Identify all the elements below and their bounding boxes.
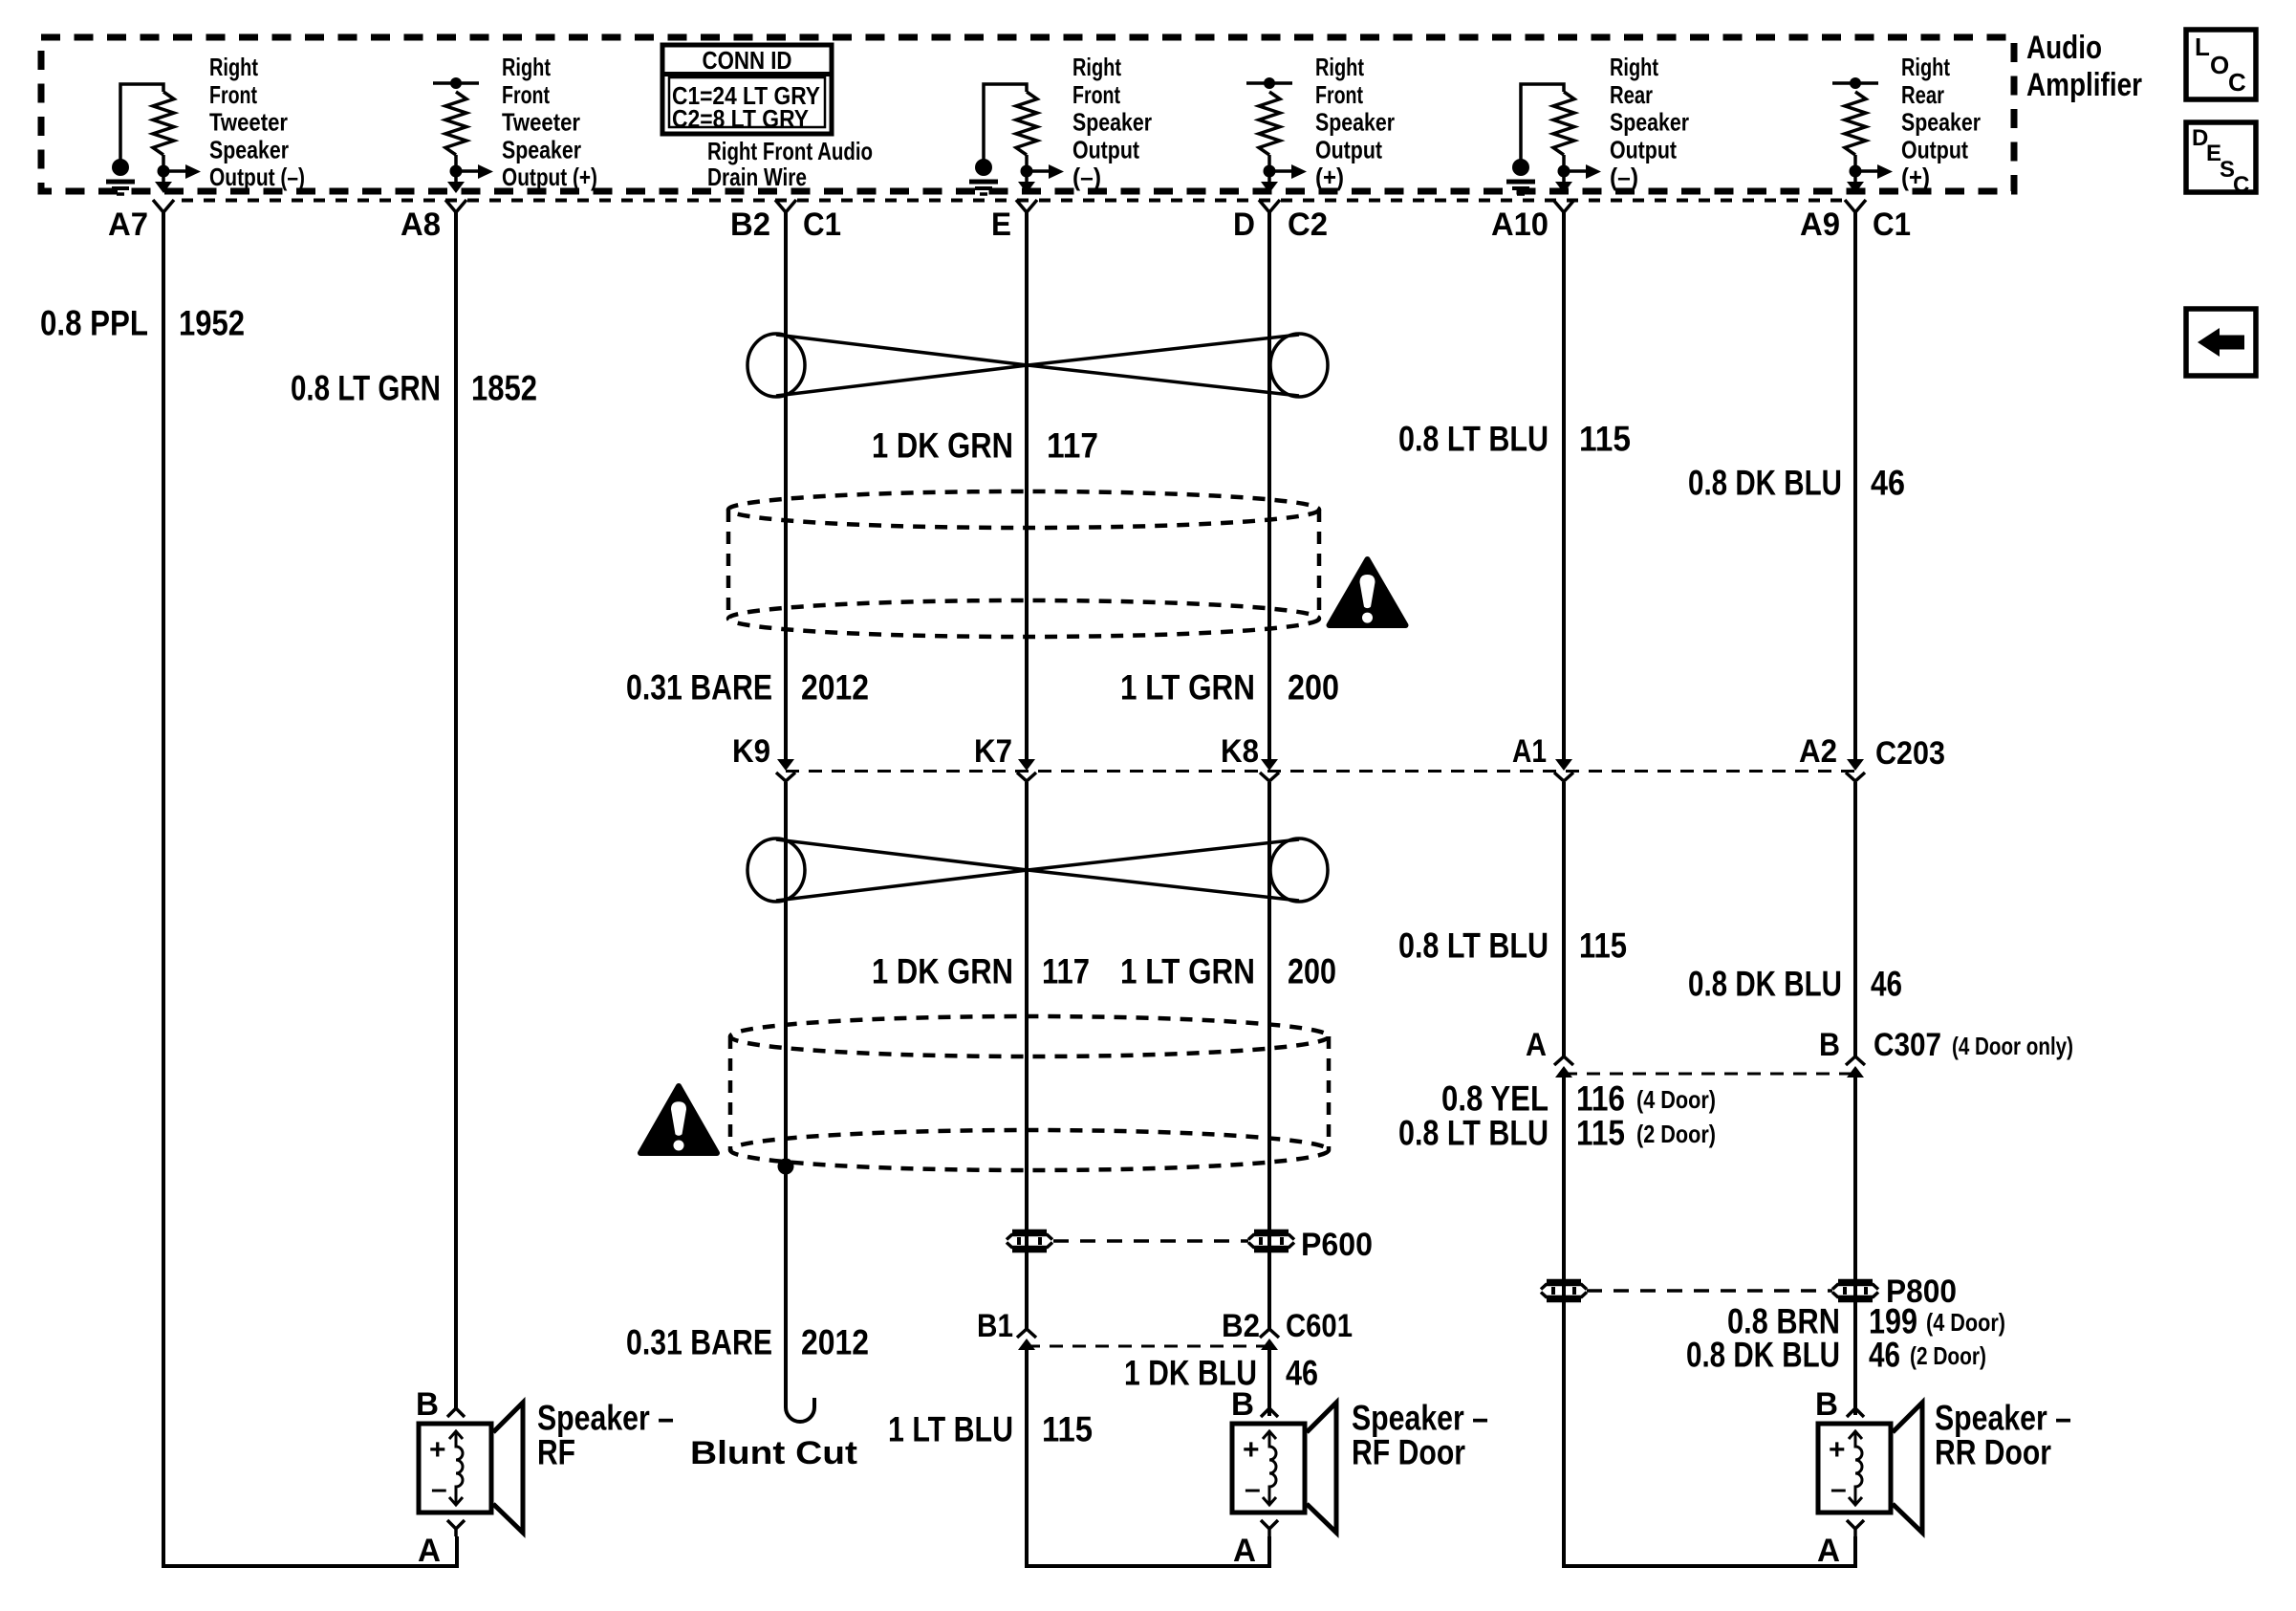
svg-text:2012: 2012: [801, 1323, 869, 1362]
grommet P600 on wire 200: [1254, 1230, 1289, 1234]
svg-text:2012: 2012: [801, 668, 869, 708]
svg-text:0.8 LT GRN: 0.8 LT GRN: [291, 369, 441, 408]
svg-text:200: 200: [1288, 952, 1336, 991]
svg-text:0.8 DK BLU: 0.8 DK BLU: [1688, 965, 1842, 1004]
svg-text:A10: A10: [1491, 207, 1549, 243]
P800 dashed link: [1587, 1289, 1832, 1293]
inline connector C203 dashed line: [786, 770, 1855, 773]
grommet P800 on wire 115: [1547, 1279, 1581, 1284]
svg-text:Output: Output: [1072, 135, 1139, 163]
svg-text:0.8 PPL: 0.8 PPL: [40, 304, 148, 343]
svg-text:C: C: [2233, 172, 2249, 198]
svg-text:A: A: [1526, 1027, 1547, 1063]
svg-text:46: 46: [1871, 464, 1905, 503]
svg-text:1 LT BLU: 1 LT BLU: [888, 1410, 1013, 1449]
svg-text:Speaker: Speaker: [1315, 108, 1395, 137]
bottom wire RF Door speaker return: [1025, 1536, 1269, 1566]
svg-text:46: 46: [1286, 1354, 1318, 1393]
wire A8: 0.8 LT GRN 1852: [454, 212, 458, 1410]
connector C203 pin A2: [1847, 759, 1864, 771]
wire A7: 0.8 PPL 1952: [162, 212, 165, 1564]
bottom wire RF speaker return: [162, 1536, 457, 1566]
svg-text:0.8 LT BLU: 0.8 LT BLU: [1398, 420, 1549, 459]
svg-text:116: 116: [1576, 1079, 1625, 1119]
svg-text:Front: Front: [502, 80, 550, 109]
shield symbol (upper, dashed cylinder): [728, 491, 1319, 528]
svg-text:Blunt Cut: Blunt Cut: [690, 1435, 857, 1471]
connector C203 pin A1: [1555, 759, 1572, 771]
connector C203 pin K8: [1261, 759, 1278, 771]
P600 dashed link: [1053, 1239, 1248, 1243]
svg-text:Speaker: Speaker: [1610, 108, 1689, 137]
svg-text:Speaker –: Speaker –: [537, 1399, 674, 1438]
svg-text:Speaker –: Speaker –: [1352, 1399, 1488, 1438]
svg-text:C203: C203: [1875, 735, 1945, 772]
svg-text:–: –: [431, 1473, 447, 1505]
svg-text:Front: Front: [209, 80, 257, 109]
connector Y at pin B2: [775, 200, 796, 212]
svg-text:RF: RF: [537, 1433, 575, 1472]
svg-text:Speaker: Speaker: [1072, 108, 1152, 137]
wire A9: 0.8 DK BLU 46: [1853, 212, 1857, 759]
shield symbol (lower, dashed cylinder): [730, 1016, 1329, 1056]
svg-text:C2=8 LT GRY: C2=8 LT GRY: [672, 104, 809, 133]
speaker RF: [419, 1424, 491, 1513]
svg-text:Front: Front: [1072, 80, 1120, 109]
svg-text:(+): (+): [1315, 163, 1344, 191]
connector C601 pin B2: [1260, 1329, 1279, 1338]
svg-text:Speaker: Speaker: [209, 135, 289, 163]
svg-text:B2: B2: [1222, 1308, 1260, 1344]
svg-text:Right: Right: [1901, 53, 1950, 81]
svg-text:1852: 1852: [471, 369, 537, 408]
svg-text:115: 115: [1579, 420, 1631, 459]
svg-text:0.31 BARE: 0.31 BARE: [626, 1323, 772, 1362]
svg-text:0.8 DK BLU: 0.8 DK BLU: [1686, 1336, 1840, 1375]
connector Y at pin A9: [1845, 200, 1866, 212]
back-arrow box: [2186, 309, 2256, 376]
connector C203 pin K9: [777, 759, 794, 771]
svg-text:A1: A1: [1512, 733, 1547, 770]
DESC box: [2186, 122, 2256, 192]
svg-text:Front: Front: [1315, 80, 1363, 109]
svg-text:(4 Door): (4 Door): [1926, 1308, 2005, 1337]
wire B2/C1 drain wire 0.31 BARE 2012: [784, 212, 788, 759]
svg-text:Speaker –: Speaker –: [1935, 1399, 2071, 1438]
svg-text:O: O: [2210, 51, 2229, 79]
warning triangle (lower): [640, 1086, 717, 1153]
amp coil: Right Rear Speaker Output (-) at A10: [1553, 92, 1574, 155]
svg-text:0.31 BARE: 0.31 BARE: [626, 668, 772, 708]
wire D: LT GRN 200 / DK BLU 46: [1267, 212, 1271, 759]
svg-text:+: +: [429, 1434, 446, 1466]
connector Y at pin D: [1259, 200, 1280, 212]
svg-text:C307: C307: [1874, 1027, 1941, 1063]
inline connector C601 dashed line: [1027, 1345, 1269, 1348]
svg-text:+: +: [1829, 1434, 1846, 1466]
svg-text:RF Door: RF Door: [1352, 1433, 1465, 1472]
svg-text:(4 Door): (4 Door): [1636, 1085, 1716, 1114]
svg-text:Rear: Rear: [1901, 80, 1944, 109]
svg-text:B: B: [1231, 1386, 1254, 1423]
svg-text:K8: K8: [1221, 733, 1259, 770]
svg-text:115: 115: [1579, 926, 1627, 966]
svg-text:1 LT GRN: 1 LT GRN: [1120, 952, 1255, 991]
svg-text:C: C: [2228, 68, 2246, 97]
amp coil: Right Front Tweeter Speaker Output (-) at A7: [153, 92, 174, 155]
svg-text:Output: Output: [1315, 135, 1382, 163]
LOC box: [2186, 30, 2256, 99]
svg-text:CONN ID: CONN ID: [703, 46, 792, 75]
svg-text:0.8 LT BLU: 0.8 LT BLU: [1398, 1114, 1549, 1153]
svg-text:46: 46: [1871, 965, 1902, 1004]
svg-text:A: A: [1817, 1533, 1840, 1569]
svg-text:Right: Right: [1315, 53, 1364, 81]
svg-text:46: 46: [1869, 1336, 1900, 1375]
amp coil: Right Front Speaker Output (+) at D: [1259, 92, 1280, 155]
svg-text:–: –: [1245, 1473, 1261, 1505]
speaker RF Door: [1232, 1424, 1305, 1513]
svg-text:0.8 DK BLU: 0.8 DK BLU: [1688, 464, 1842, 503]
svg-text:L: L: [2195, 33, 2210, 61]
amp coil: Right Front Speaker Output (-) at E: [1016, 92, 1037, 155]
svg-text:A9: A9: [1800, 207, 1840, 243]
svg-text:(4 Door only): (4 Door only): [1952, 1032, 2073, 1060]
svg-text:Tweeter: Tweeter: [502, 108, 580, 137]
svg-text:D: D: [1233, 207, 1255, 243]
svg-text:E: E: [991, 207, 1011, 243]
connector Y at pin A7: [153, 200, 174, 212]
svg-text:0.8 YEL: 0.8 YEL: [1441, 1079, 1549, 1119]
svg-text:B: B: [416, 1386, 439, 1423]
svg-text:A8: A8: [401, 207, 441, 243]
svg-text:–: –: [1830, 1473, 1847, 1505]
svg-text:+: +: [1243, 1434, 1260, 1466]
grommet P800 on wire 46: [1838, 1279, 1873, 1284]
svg-text:B2: B2: [730, 207, 770, 243]
twisted pair symbol (upper): [776, 335, 1299, 396]
svg-text:Output: Output: [1610, 135, 1677, 163]
svg-text:K7: K7: [974, 733, 1012, 770]
svg-text:C1: C1: [803, 207, 841, 243]
svg-text:117: 117: [1047, 426, 1098, 466]
junction dot on drain wire at shield: [778, 1159, 794, 1175]
svg-text:Output: Output: [1901, 135, 1968, 163]
connector C307 pin A: [1554, 1056, 1573, 1065]
warning triangle (upper): [1330, 559, 1406, 625]
svg-text:A: A: [1233, 1533, 1256, 1569]
svg-text:Output (–): Output (–): [209, 163, 305, 191]
svg-text:A2: A2: [1799, 733, 1837, 770]
svg-text:Right: Right: [209, 53, 258, 81]
svg-text:Right: Right: [502, 53, 551, 81]
svg-text:1 DK GRN: 1 DK GRN: [872, 952, 1013, 991]
wire A10: 0.8 LT BLU 115: [1562, 212, 1566, 759]
svg-text:(–): (–): [1610, 163, 1638, 191]
svg-text:200: 200: [1288, 668, 1339, 708]
connector C203 pin K7: [1018, 759, 1035, 771]
twisted pair symbol (lower): [776, 839, 1299, 901]
inline connector C307 dashed line (4 door only): [1564, 1073, 1855, 1076]
svg-text:Amplifier: Amplifier: [2026, 67, 2142, 103]
svg-text:Right Front Audio: Right Front Audio: [707, 137, 873, 165]
svg-text:115: 115: [1042, 1410, 1093, 1449]
svg-text:A: A: [418, 1533, 441, 1569]
svg-text:117: 117: [1042, 952, 1090, 991]
svg-text:Tweeter: Tweeter: [209, 108, 288, 137]
svg-text:P600: P600: [1301, 1227, 1373, 1263]
svg-text:(–): (–): [1072, 163, 1101, 191]
svg-text:(+): (+): [1901, 163, 1930, 191]
svg-text:K9: K9: [732, 733, 770, 770]
connector Y at pin A10: [1553, 200, 1574, 212]
CONN ID table: [662, 45, 832, 134]
svg-text:0.8 LT BLU: 0.8 LT BLU: [1398, 926, 1549, 966]
amp coil: Right Front Tweeter Speaker Output (+) at A8: [445, 92, 466, 155]
svg-text:Speaker: Speaker: [502, 135, 581, 163]
svg-text:Drain Wire: Drain Wire: [707, 163, 807, 191]
speaker RR Door: [1818, 1424, 1891, 1513]
Audio Amplifier dashed box: [41, 37, 2014, 191]
svg-text:RR Door: RR Door: [1935, 1433, 2051, 1472]
svg-text:Audio: Audio: [2026, 30, 2102, 66]
svg-text:A7: A7: [108, 207, 148, 243]
svg-text:B: B: [1815, 1386, 1838, 1423]
bottom wire RR Door speaker return: [1562, 1536, 1855, 1566]
amplifier connector face dashed line: [182, 199, 1843, 203]
svg-text:C2: C2: [1288, 207, 1328, 243]
svg-text:1 DK GRN: 1 DK GRN: [872, 426, 1013, 466]
svg-text:(2 Door): (2 Door): [1910, 1341, 1986, 1370]
svg-text:Output (+): Output (+): [502, 163, 597, 191]
svg-text:Right: Right: [1072, 53, 1121, 81]
svg-text:B: B: [1819, 1027, 1840, 1063]
svg-text:Speaker: Speaker: [1901, 108, 1981, 137]
blunt-cut hook on drain wire: [786, 1391, 814, 1422]
connector Y at pin E: [1016, 200, 1037, 212]
connector C307 pin B: [1846, 1056, 1865, 1065]
connector C601 pin B1: [1017, 1329, 1036, 1338]
svg-text:1952: 1952: [179, 304, 245, 343]
svg-text:115: 115: [1576, 1114, 1625, 1153]
amp coil: Right Rear Speaker Output (+) at A9: [1845, 92, 1866, 155]
grommet P600 on wire 117: [1012, 1230, 1047, 1234]
svg-text:1 LT GRN: 1 LT GRN: [1120, 668, 1255, 708]
svg-text:C1: C1: [1873, 207, 1911, 243]
svg-text:B1: B1: [977, 1308, 1013, 1344]
svg-text:C601: C601: [1286, 1308, 1353, 1344]
connector Y at pin A8: [445, 200, 466, 212]
svg-text:(2 Door): (2 Door): [1636, 1120, 1716, 1148]
svg-text:Right: Right: [1610, 53, 1658, 81]
wire E: DK GRN 117 / LT BLU 115: [1025, 212, 1029, 759]
svg-text:Rear: Rear: [1610, 80, 1653, 109]
